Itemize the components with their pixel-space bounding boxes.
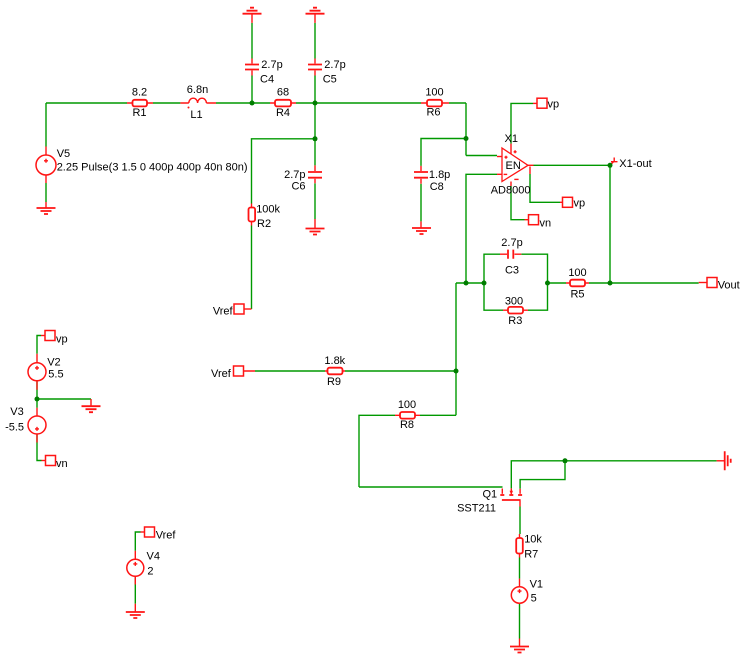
svg-text:100: 100 bbox=[425, 86, 443, 98]
svg-text:-5.5: -5.5 bbox=[5, 421, 24, 433]
svg-text:R4: R4 bbox=[276, 107, 290, 119]
svg-text:R5: R5 bbox=[570, 289, 584, 301]
svg-text:Q1: Q1 bbox=[483, 489, 498, 501]
svg-text:6.8n: 6.8n bbox=[187, 84, 208, 96]
svg-text:2: 2 bbox=[147, 566, 153, 578]
svg-text:C5: C5 bbox=[323, 74, 337, 86]
svg-text:2.7p: 2.7p bbox=[324, 59, 345, 71]
svg-text:100: 100 bbox=[568, 267, 586, 279]
svg-text:C4: C4 bbox=[260, 74, 274, 86]
svg-text:1.8k: 1.8k bbox=[324, 355, 345, 367]
svg-text:2.7p: 2.7p bbox=[284, 169, 305, 181]
svg-text:AD8000: AD8000 bbox=[491, 185, 531, 197]
svg-text:2.7p: 2.7p bbox=[501, 237, 522, 249]
svg-text:EN: EN bbox=[506, 160, 521, 172]
svg-text:X1: X1 bbox=[505, 133, 518, 145]
svg-text:R6: R6 bbox=[426, 106, 440, 118]
svg-text:V2: V2 bbox=[47, 357, 60, 369]
svg-text:X1-out: X1-out bbox=[619, 158, 651, 170]
svg-text:R8: R8 bbox=[400, 419, 414, 431]
svg-text:V4: V4 bbox=[147, 551, 160, 563]
svg-text:R9: R9 bbox=[327, 376, 341, 388]
svg-text:2.7p: 2.7p bbox=[261, 59, 282, 71]
svg-text:Vref: Vref bbox=[211, 368, 232, 380]
svg-text:C6: C6 bbox=[291, 181, 305, 193]
svg-text:2.25 Pulse(3 1.5 0 400p 400p 4: 2.25 Pulse(3 1.5 0 400p 400p 40n 80n) bbox=[57, 161, 248, 173]
svg-text:L1: L1 bbox=[190, 109, 202, 121]
svg-text:100k: 100k bbox=[256, 204, 280, 216]
svg-text:Vout: Vout bbox=[718, 280, 740, 292]
svg-text:5: 5 bbox=[531, 593, 537, 605]
svg-text:Vref: Vref bbox=[213, 306, 234, 318]
svg-text:68: 68 bbox=[277, 86, 289, 98]
svg-text:R3: R3 bbox=[508, 315, 522, 327]
svg-text:Vref: Vref bbox=[156, 530, 177, 542]
svg-text:1.8p: 1.8p bbox=[429, 169, 450, 181]
svg-text:vn: vn bbox=[56, 458, 68, 470]
svg-text:8.2: 8.2 bbox=[132, 86, 147, 98]
svg-text:vp: vp bbox=[56, 334, 68, 346]
svg-text:vn: vn bbox=[540, 218, 552, 230]
svg-text:vp: vp bbox=[574, 198, 586, 210]
svg-text:10k: 10k bbox=[524, 534, 542, 546]
svg-text:C8: C8 bbox=[430, 181, 444, 193]
svg-text:V5: V5 bbox=[57, 148, 70, 160]
svg-text:vp: vp bbox=[548, 99, 560, 111]
svg-text:R1: R1 bbox=[132, 107, 146, 119]
svg-text:300: 300 bbox=[505, 295, 523, 307]
svg-text:SST211: SST211 bbox=[457, 503, 496, 515]
svg-text:C3: C3 bbox=[505, 264, 519, 276]
svg-text:5.5: 5.5 bbox=[48, 369, 63, 381]
svg-text:R2: R2 bbox=[257, 218, 271, 230]
svg-text:R7: R7 bbox=[524, 549, 538, 561]
svg-text:100: 100 bbox=[398, 399, 416, 411]
svg-text:V1: V1 bbox=[530, 579, 543, 591]
svg-text:V3: V3 bbox=[10, 406, 23, 418]
